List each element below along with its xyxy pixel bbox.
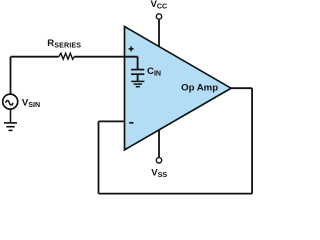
resistor RSERIES	[59, 53, 75, 59]
capacitor CIN	[131, 70, 144, 82]
wire: feedback bottom	[99, 193, 253, 195]
VCC terminal	[156, 14, 161, 47]
VSS terminal	[156, 130, 161, 163]
wire: left vertical to source	[10, 57, 12, 94]
wire: inverting input	[99, 120, 126, 122]
svg-text:Op Amp: Op Amp	[181, 83, 218, 94]
ground (under VSIN)	[4, 109, 17, 131]
op-amp U1	[125, 27, 232, 150]
wire: input from source to capacitor node	[11, 56, 138, 58]
wire: output from apex	[231, 87, 252, 89]
svg-text:VCC: VCC	[151, 0, 168, 11]
source VSIN	[3, 94, 18, 109]
plus input marker	[129, 46, 134, 51]
wire: feedback left vertical	[98, 121, 100, 193]
wire: capacitor stub from input node	[137, 57, 139, 70]
wire: feedback right vertical	[251, 88, 253, 193]
ground (under CIN)	[131, 81, 144, 86]
minus input marker	[129, 122, 133, 124]
